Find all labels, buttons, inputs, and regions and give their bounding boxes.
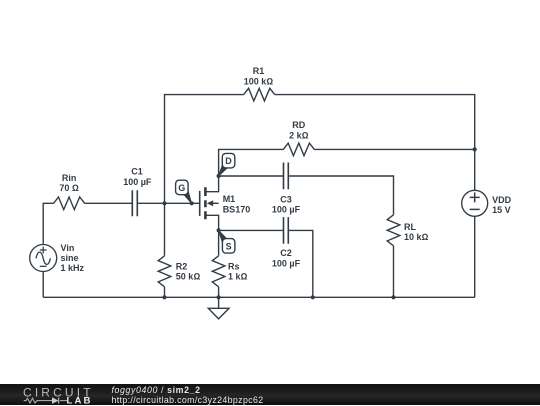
svg-text:S: S	[226, 241, 232, 251]
wire RD to right rail	[314, 148, 474, 150]
wire right rail upper (RD node to VDD)	[474, 149, 476, 190]
wire RL bottom lead	[393, 246, 395, 297]
transistor M1 BS170	[200, 176, 219, 230]
svg-text:R1: R1	[253, 66, 265, 76]
svg-text:C3: C3	[280, 194, 292, 204]
resistor Rin	[54, 197, 85, 210]
svg-text:2 kΩ: 2 kΩ	[289, 130, 309, 140]
svg-text:100 kΩ: 100 kΩ	[244, 76, 274, 86]
wire Vin top to Rin	[43, 203, 53, 244]
svg-text:BS170: BS170	[223, 205, 251, 215]
resistor RL	[387, 215, 400, 246]
label R1 value	[244, 66, 274, 86]
svg-text:VDD: VDD	[492, 195, 512, 205]
node drain junction dot	[217, 174, 221, 178]
node junction R1/R2/gate-wire	[162, 201, 166, 205]
label RL value	[404, 222, 429, 242]
flag node S	[218, 230, 235, 253]
wire right rail lower (VDD to bottom rail)	[474, 216, 476, 297]
node gate junction dot	[190, 201, 194, 205]
flag node D	[218, 153, 235, 176]
label R2 value	[176, 261, 201, 281]
wire source to C2	[219, 229, 284, 231]
label C1 value	[123, 167, 152, 187]
svg-text:R2: R2	[176, 261, 188, 271]
wire bottom rail	[43, 296, 475, 298]
ground	[208, 297, 229, 319]
node C2 bottom-rail junction	[311, 295, 315, 299]
wire C3 to RL	[288, 176, 393, 215]
node source junction dot	[217, 228, 221, 232]
label VDD value	[492, 195, 512, 215]
wire Rs top lead	[218, 230, 220, 255]
svg-text:70 Ω: 70 Ω	[59, 183, 79, 193]
svg-text:50 kΩ: 50 kΩ	[176, 272, 201, 282]
resistor R1	[244, 88, 275, 101]
svg-text:1 kΩ: 1 kΩ	[228, 272, 248, 282]
wire drain to C3	[219, 175, 284, 177]
wire Rs bottom lead	[218, 287, 220, 298]
footer credit text	[112, 386, 264, 405]
wire Vin bottom	[42, 271, 44, 297]
wire top-left (R1 left lead and left vertical riser)	[165, 95, 244, 204]
resistor R2	[158, 256, 171, 287]
svg-text:Vin: Vin	[61, 243, 75, 253]
node junction R2 bottom rail	[162, 295, 166, 299]
wire C1 to gate	[137, 202, 199, 204]
CircuitLab logo	[0, 384, 110, 405]
svg-text:1 kHz: 1 kHz	[61, 263, 85, 273]
label Rin value	[59, 173, 79, 193]
svg-text:RD: RD	[292, 120, 305, 130]
svg-text:Rs: Rs	[228, 261, 240, 271]
svg-text:100 µF: 100 µF	[272, 259, 301, 269]
label RD value	[289, 120, 309, 140]
label Rs value	[228, 261, 248, 281]
resistor Rs	[212, 256, 225, 287]
svg-text:G: G	[178, 183, 185, 193]
capacitor C3	[284, 163, 289, 190]
capacitor C2	[284, 217, 289, 244]
flag node G	[176, 180, 192, 204]
capacitor C1	[132, 190, 137, 216]
node RD right-rail junction	[473, 147, 477, 151]
wire drain to RD	[219, 149, 284, 176]
svg-text:D: D	[225, 156, 232, 166]
svg-text:LAB: LAB	[67, 396, 93, 405]
label Vin value	[61, 243, 85, 273]
node RL bottom-rail junction	[391, 295, 395, 299]
node Rs bottom-rail junction	[217, 295, 221, 299]
wire C2 to bottom rail	[288, 230, 313, 297]
svg-text:C2: C2	[280, 248, 292, 258]
label C3 value	[272, 194, 301, 214]
wire R2 bottom lead	[164, 287, 166, 298]
svg-text:15 V: 15 V	[492, 205, 511, 215]
voltage source Vin (sine)	[30, 245, 57, 272]
svg-text:Rin: Rin	[62, 173, 77, 183]
label M1 BS170	[223, 194, 251, 214]
wire R2 top lead	[164, 203, 166, 256]
footer bar	[0, 384, 540, 405]
svg-text:M1: M1	[223, 194, 236, 204]
label C2 value	[272, 248, 301, 268]
svg-text:100 µF: 100 µF	[272, 205, 301, 215]
resistor RD	[283, 143, 314, 156]
voltage source VDD	[462, 190, 488, 216]
svg-text:RL: RL	[404, 222, 416, 232]
svg-text:100 µF: 100 µF	[123, 177, 152, 187]
wire Rin to C1	[85, 202, 133, 204]
svg-text:C1: C1	[131, 167, 143, 177]
svg-text:10 kΩ: 10 kΩ	[404, 232, 429, 242]
svg-text:sine: sine	[61, 253, 79, 263]
wire top-right (R1 to right rail)	[275, 95, 475, 150]
